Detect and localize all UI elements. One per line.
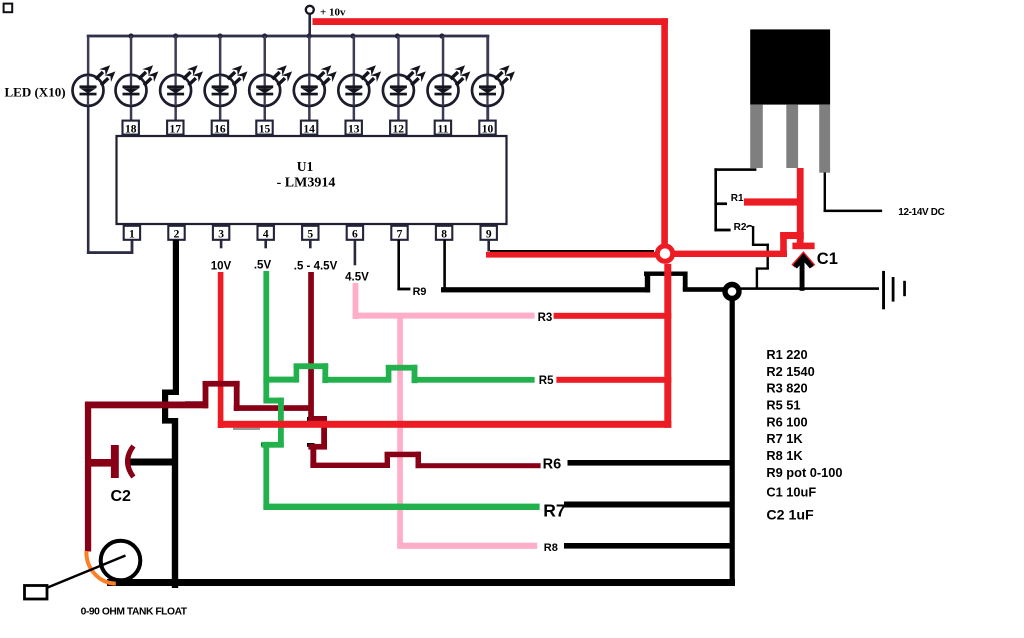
pin 9 — [481, 226, 497, 240]
pin 3 — [213, 226, 229, 240]
rail junction dots — [128, 33, 444, 38]
component list — [766, 347, 842, 524]
wire pin 5 maroon vertical — [308, 272, 314, 422]
wire pink horizontal to R8 — [397, 543, 537, 549]
wire maroon staircase to pin 5 — [85, 381, 313, 411]
wire leg3 to 12-14V DC — [824, 173, 883, 213]
svg-text:C1 10uF: C1 10uF — [766, 485, 816, 500]
svg-text:4: 4 — [263, 229, 269, 241]
ground rail bottom black wire — [107, 579, 735, 586]
wire red horizontal to pin 3 — [218, 421, 672, 428]
wire R7 black — [564, 502, 733, 508]
ground wire to ground symbol — [741, 287, 879, 290]
wire +10v red top line — [313, 18, 669, 25]
capacitor C2 straight plate — [111, 445, 119, 478]
wire pink long vertical — [397, 315, 403, 546]
pin 2 — [168, 226, 184, 240]
wire maroon R6 line with hop over pink — [310, 452, 540, 469]
orange arc tank float wiper — [86, 551, 115, 584]
svg-text:LED (X10): LED (X10) — [5, 85, 66, 100]
wire pink horizontal to R3 — [353, 313, 535, 319]
pin 8 — [436, 226, 452, 240]
bottom pin boxes 1..9 — [124, 226, 497, 241]
ground symbol — [882, 271, 906, 309]
corner mark square — [4, 4, 13, 13]
pin 13 — [346, 121, 362, 135]
thin black line under pin9 red wire — [490, 250, 654, 252]
wire node to rail black vertical — [730, 296, 735, 586]
tank float pointer line — [44, 556, 126, 590]
svg-text:18: 18 — [125, 123, 137, 135]
capacitor C1 arrow red chevron — [793, 255, 813, 266]
svg-text:C2 1uF: C2 1uF — [766, 508, 814, 524]
LED D1 — [73, 65, 116, 106]
wire C2 right lead black — [126, 459, 177, 466]
resistor R5 red wire — [556, 377, 671, 383]
svg-text:.5 - 4.5V: .5 - 4.5V — [294, 260, 338, 272]
wire pin 8 down — [443, 240, 446, 291]
svg-text:R5 51: R5 51 — [766, 398, 800, 413]
top pin boxes 18..10 — [123, 121, 496, 136]
svg-text:C1: C1 — [817, 250, 838, 268]
svg-text:2: 2 — [174, 229, 180, 241]
svg-text:R9 pot 0-100: R9 pot 0-100 — [766, 465, 842, 480]
wire maroon jog below pin 5 — [308, 416, 327, 466]
pin 12 — [390, 121, 406, 135]
svg-text:16: 16 — [214, 123, 226, 135]
svg-text:R8: R8 — [544, 542, 558, 554]
+10v terminal — [306, 6, 346, 37]
LED D2 — [116, 65, 159, 106]
pin 10 — [479, 121, 495, 135]
pin 16 — [212, 121, 228, 135]
svg-text:R9: R9 — [413, 286, 427, 298]
svg-text:1: 1 — [129, 229, 135, 241]
pin 1 — [124, 226, 140, 240]
capacitor C2 left lead maroon — [88, 459, 114, 467]
svg-text:5: 5 — [307, 229, 313, 241]
wire red vertical upper — [661, 18, 668, 244]
wire R2 zigzag to ground line — [747, 226, 769, 288]
pin stubs below pins 3,4,5,6,9 — [220, 240, 490, 265]
wire pin 4 green vertical — [263, 271, 269, 401]
svg-text:R7: R7 — [543, 500, 565, 520]
wire red vertical lower — [664, 264, 671, 428]
LED D5 — [249, 65, 292, 106]
svg-text:12-14V DC: 12-14V DC — [898, 207, 944, 218]
node black ring junction — [725, 285, 739, 299]
svg-text:12: 12 — [393, 123, 405, 135]
wire pin 2 black vertical with jogs — [162, 240, 179, 588]
node red ring junction — [657, 246, 672, 261]
scan remnant marks under painted wires — [185, 401, 314, 447]
svg-text:R5: R5 — [539, 375, 554, 387]
resistor R1 red wire — [744, 198, 803, 205]
svg-text:15: 15 — [259, 123, 271, 135]
LED anode rail wire — [87, 35, 490, 38]
regulator leg 3 — [819, 105, 830, 173]
svg-text:R8 1K: R8 1K — [766, 448, 803, 463]
LED D10 — [472, 65, 515, 106]
gray smudge under red wire — [233, 428, 260, 430]
svg-text:C2: C2 — [111, 488, 132, 505]
capacitor C1 top plate red — [792, 243, 814, 250]
tank float circle — [101, 541, 141, 581]
svg-text:R2 1540: R2 1540 — [766, 364, 814, 379]
pin 6 — [347, 226, 363, 240]
wire green jog down to R7 — [261, 398, 283, 510]
wire maroon left vertical from C2 branch — [85, 403, 91, 552]
svg-text:17: 17 — [170, 123, 182, 135]
wire leg1 to R1/R2 bracket — [714, 168, 756, 231]
pin 18 — [123, 121, 139, 135]
pin 15 — [256, 121, 272, 135]
svg-text:U1: U1 — [297, 159, 314, 174]
svg-text:6: 6 — [352, 229, 358, 241]
wire pin 3 red vertical — [218, 272, 224, 428]
capacitor C2 curved plate — [128, 446, 134, 477]
svg-text:11: 11 — [437, 123, 448, 135]
svg-text:9: 9 — [486, 229, 492, 241]
wire pin 9 red line — [486, 252, 656, 258]
resistor R3 red wire — [554, 313, 672, 319]
svg-text:10V: 10V — [211, 261, 232, 273]
wire LED1 to pin 1 — [87, 104, 134, 254]
LED cathode wire columns to pins 18..10 — [87, 36, 489, 121]
svg-text:14: 14 — [303, 123, 315, 135]
svg-text:R3 820: R3 820 — [766, 381, 807, 396]
svg-text:0-90 OHM TANK FLOAT: 0-90 OHM TANK FLOAT — [81, 607, 188, 618]
wire green R7 horizontal — [263, 504, 539, 510]
wire R9 black thick with step over red — [441, 272, 724, 293]
wire pin 6 pink down — [353, 283, 359, 319]
LED D7 — [338, 65, 381, 106]
svg-text:3: 3 — [218, 229, 224, 241]
capacitor C1 shaft black — [800, 260, 805, 291]
pin 17 — [167, 121, 183, 135]
LED D9 — [428, 65, 471, 106]
wire pin 7 to R9 — [397, 240, 410, 291]
wire R8 black — [564, 543, 733, 549]
tank float terminal square — [25, 586, 48, 600]
pin 11 — [435, 121, 451, 135]
capacitor C1 arrow black chevron — [795, 257, 812, 267]
svg-text:R1: R1 — [731, 193, 744, 204]
svg-text:.5V: .5V — [254, 260, 272, 272]
svg-text:R2: R2 — [734, 222, 747, 233]
svg-text:10: 10 — [482, 123, 494, 135]
pin 4 — [258, 226, 274, 240]
LED D6 — [294, 65, 337, 106]
svg-text:R7 1K: R7 1K — [766, 431, 803, 446]
wire R6 black — [568, 460, 733, 466]
LED D8 — [383, 65, 426, 106]
LED D3 — [160, 65, 203, 106]
LED D4 — [205, 65, 248, 106]
svg-text:R3: R3 — [538, 312, 553, 324]
svg-text:13: 13 — [348, 123, 360, 135]
svg-text:+ 10v: + 10v — [320, 7, 346, 19]
svg-text:8: 8 — [441, 229, 447, 241]
svg-text:R6: R6 — [543, 457, 562, 473]
svg-text:R6 100: R6 100 — [766, 415, 807, 430]
svg-text:- LM3914: - LM3914 — [277, 176, 336, 191]
voltage regulator body — [750, 29, 830, 104]
pin 7 — [391, 226, 407, 240]
regulator leg 2 — [786, 105, 798, 168]
wire regulator leg2 red vertical — [797, 168, 804, 249]
wire green R5 branch with hops — [263, 363, 534, 383]
pin 5 — [302, 226, 318, 240]
svg-text:R1 220: R1 220 — [766, 347, 807, 362]
pin 14 — [301, 121, 317, 135]
op-amp U1 LM3914 IC body — [117, 136, 507, 224]
regulator leg 1 — [750, 105, 763, 168]
svg-text:4.5V: 4.5V — [345, 271, 369, 283]
wire red node to C1 — [674, 232, 804, 257]
svg-text:7: 7 — [397, 229, 403, 241]
